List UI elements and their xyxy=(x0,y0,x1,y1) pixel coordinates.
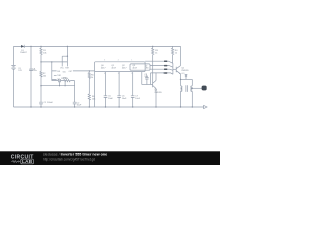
wire y72.9 collector bus xyxy=(151,73,173,74)
fan wire 3 xyxy=(150,69,173,70)
svg-text:LAB: LAB xyxy=(22,159,32,164)
fan wire 2 xyxy=(150,66,173,68)
load lamp dark box xyxy=(202,86,207,90)
capacitor C4 plates (series RC) xyxy=(58,79,60,82)
wire Q1 base xyxy=(173,68,176,70)
bottom black bar xyxy=(0,151,220,165)
IC U2 box xyxy=(95,62,146,72)
svg-text:TMR: TMR xyxy=(63,78,68,80)
svg-text:12: 12 xyxy=(118,73,120,75)
wire 555 bottom pins xyxy=(60,80,66,85)
transistor Q1 xyxy=(176,66,180,74)
resistor R3 zigzag top right xyxy=(152,46,154,81)
svg-text:10k: 10k xyxy=(92,99,96,101)
net tag fan 4 xyxy=(164,72,167,74)
svg-text:sledusas / Inverter 555 timer: sledusas / Inverter 555 timer new one xyxy=(43,153,107,157)
svg-text:http://circuitlab.com/c/g45Tnx: http://circuitlab.com/c/g45TnxsThe1gd xyxy=(43,157,95,161)
wire vertical net x31 xyxy=(30,46,32,107)
wire y85.7 xyxy=(41,85,75,87)
svg-text:1: 1 xyxy=(131,60,132,62)
capacitor C8 branch x146.9 xyxy=(145,75,148,85)
svg-text:LED: LED xyxy=(145,68,149,70)
wire IC drop x119.1 xyxy=(118,72,120,107)
svg-text:2N3055: 2N3055 xyxy=(154,92,162,94)
IC U3 sub-box xyxy=(130,64,150,70)
battery V1 xyxy=(11,65,15,69)
wire 555 top pins to rail xyxy=(62,46,67,66)
resistor R5 zigzag xyxy=(88,73,90,79)
transistor Q2 xyxy=(153,81,156,89)
svg-text:555: 555 xyxy=(63,72,66,74)
svg-text:2: 2 xyxy=(118,60,119,62)
diode D1 xyxy=(21,45,24,48)
component labels (tiny text) xyxy=(18,50,189,107)
wire Q1 collector to rail xyxy=(180,46,182,65)
svg-text:1k: 1k xyxy=(91,77,94,79)
wire vertical x51.8 xyxy=(51,62,53,81)
svg-text:TRI: TRI xyxy=(57,79,60,81)
wire cap branch x141.8 xyxy=(141,72,143,85)
svg-text:10k: 10k xyxy=(43,53,47,55)
svg-text:VCC: VCC xyxy=(60,68,64,70)
capacitor C3 plates x31 xyxy=(29,69,33,70)
svg-text:470u: 470u xyxy=(33,70,37,72)
svg-text:1k: 1k xyxy=(175,53,178,55)
svg-text:10uF: 10uF xyxy=(77,105,82,107)
svg-text:4017: 4017 xyxy=(101,68,106,70)
svg-text:10k: 10k xyxy=(43,75,47,77)
resistor R2 zigzag xyxy=(40,72,42,78)
svg-text:1N4007: 1N4007 xyxy=(20,52,27,54)
capacitor C7 plates xyxy=(131,96,135,98)
resistor R1 zigzag xyxy=(40,48,42,54)
fan wire 1 xyxy=(145,61,173,63)
transformer T1 right winding xyxy=(191,86,193,92)
svg-text:3: 3 xyxy=(104,60,105,62)
net flag arrow at rail end xyxy=(204,105,207,108)
wire IC drop x132.7 xyxy=(132,72,134,107)
wire bus y62 xyxy=(41,61,67,63)
svg-text:OUT: OUT xyxy=(69,71,73,73)
svg-text:12V: 12V xyxy=(18,70,22,72)
wire left rail xyxy=(13,46,15,107)
resistor R6 zigzag lower xyxy=(88,94,90,100)
fuse F1 stub xyxy=(185,75,188,80)
transformer T1 core xyxy=(186,85,188,92)
svg-text:RST: RST xyxy=(65,68,69,70)
resistor R4 zigzag top right xyxy=(172,46,174,63)
wire transformer legs xyxy=(181,79,193,107)
net tag fan 1 xyxy=(164,61,167,74)
wire bridge y79.4 xyxy=(181,78,193,80)
wire vertical x89.3 xyxy=(88,71,90,107)
IC pin numbers xyxy=(104,60,133,75)
capacitor C2 plates x74.6 xyxy=(73,102,77,104)
capacitor C1 plates x41 xyxy=(39,102,43,104)
wire top rail xyxy=(14,45,181,47)
wire IC drop x105.5 xyxy=(105,72,107,107)
wire bottom rail xyxy=(14,106,204,108)
wire 555 OUT xyxy=(73,70,95,72)
wire load xyxy=(192,87,202,89)
svg-text:DIS: DIS xyxy=(57,71,61,73)
wire IC left pin down xyxy=(94,72,96,107)
wire 555 left pin stubs xyxy=(52,71,57,80)
wire base Q2 y84.5 xyxy=(142,84,153,86)
capacitor C6 plates xyxy=(117,96,121,98)
wire vertical timing chain x41 xyxy=(40,46,42,107)
wire Q1 emitter down xyxy=(180,74,182,86)
svg-text:2N3055: 2N3055 xyxy=(181,70,189,72)
svg-text:THR: THR xyxy=(57,75,61,77)
wire cap branch x150.5 xyxy=(150,73,152,85)
wire vertical x74.6 xyxy=(74,81,76,107)
svg-text:1k: 1k xyxy=(155,53,158,55)
transformer T1 left winding xyxy=(181,86,183,92)
junction dots xyxy=(30,46,193,108)
svg-text:10uF: 10uF xyxy=(122,98,127,100)
svg-text:14: 14 xyxy=(131,73,133,75)
wire RC feedback y80.6 xyxy=(52,80,75,82)
net tag fan 3 xyxy=(164,69,167,71)
svg-text:8: 8 xyxy=(104,73,105,75)
svg-text:4017: 4017 xyxy=(122,68,127,70)
svg-text:10uF: 10uF xyxy=(135,98,140,100)
capacitor C5 plates xyxy=(104,96,108,98)
svg-text:4017: 4017 xyxy=(111,68,116,70)
net tag fan 2 xyxy=(164,65,167,67)
svg-text:10uF: 10uF xyxy=(108,98,113,100)
wire fan bus vertical xyxy=(172,63,174,74)
resistor R4 zigzag (series RC) xyxy=(64,80,71,82)
svg-text:4017: 4017 xyxy=(132,68,137,70)
svg-text:100uF: 100uF xyxy=(47,102,54,104)
